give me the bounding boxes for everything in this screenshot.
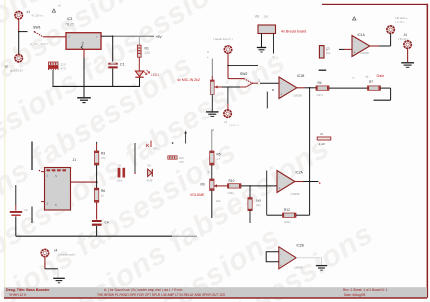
svg-text:F2: F2 <box>256 15 260 19</box>
svg-text:C1: C1 <box>120 63 125 67</box>
svg-text:LM358: LM358 <box>360 51 369 55</box>
svg-text:SW2: SW2 <box>240 72 247 76</box>
svg-text:R10: R10 <box>229 179 235 183</box>
svg-text:x3: x3 <box>224 120 227 124</box>
svg-text:Gain: Gain <box>377 74 385 78</box>
svg-text:LM358: LM358 <box>291 192 300 196</box>
svg-text:x B out L-: x B out L- <box>398 37 409 41</box>
svg-text:+9: +9 <box>58 4 62 8</box>
svg-text:E: E <box>319 181 321 185</box>
svg-text:9-12V in: 9-12V in <box>32 14 44 18</box>
svg-text:x2: x2 <box>5 65 9 69</box>
svg-text:-: - <box>280 253 281 257</box>
svg-text:( aux in ): ( aux in ) <box>229 123 239 127</box>
svg-text:LM358: LM358 <box>293 94 302 98</box>
svg-text:+: + <box>353 51 355 55</box>
svg-text:470: 470 <box>61 66 66 70</box>
svg-text:IC2A: IC2A <box>296 171 304 175</box>
svg-text:E_SW_SPDT: E_SW_SPDT <box>30 42 48 46</box>
svg-text:R12: R12 <box>284 208 290 212</box>
svg-text:10k: 10k <box>153 147 158 151</box>
svg-text:1k5: 1k5 <box>256 199 261 203</box>
svg-text:C4: C4 <box>105 221 109 225</box>
svg-text:gnd 9-12V: gnd 9-12V <box>10 69 23 73</box>
svg-text:LM358: LM358 <box>294 266 303 270</box>
svg-text:4148: 4148 <box>147 178 153 182</box>
svg-text:+: + <box>280 263 282 267</box>
svg-text:( on bb ): ( on bb ) <box>395 20 405 24</box>
svg-text:IC1A: IC1A <box>358 33 366 37</box>
svg-text:R7: R7 <box>369 80 373 84</box>
svg-text:Date: 6/Aug/09: Date: 6/Aug/09 <box>344 293 365 297</box>
svg-text:4x MIC-IN 2k2: 4x MIC-IN 2k2 <box>177 78 200 82</box>
svg-text:470: 470 <box>179 160 184 164</box>
svg-text:4x Bread board: 4x Bread board <box>281 30 306 34</box>
svg-text:R5: R5 <box>217 153 221 157</box>
svg-text:IC1B: IC1B <box>297 74 305 78</box>
svg-text:J4: J4 <box>404 33 408 37</box>
svg-text:78L05: 78L05 <box>65 23 74 27</box>
svg-text:YHHH 12 K: YHHH 12 K <box>9 293 27 297</box>
svg-text:J1: J1 <box>73 158 77 162</box>
svg-text:SW1: SW1 <box>33 25 41 29</box>
svg-text:x1: x1 <box>27 10 31 14</box>
svg-text:C: C <box>207 50 209 54</box>
svg-text:x.: x. <box>353 76 355 80</box>
svg-text:IC3: IC3 <box>67 17 72 21</box>
svg-text:Rev: 1 Sheet: 1 of 1 Board N: Rev: 1 Sheet: 1 of 1 Board N: 1 <box>343 288 388 292</box>
svg-text:x B out L+: x B out L+ <box>395 16 408 20</box>
svg-text:THE BRDW PL RKNO DPE FOR CPT S: THE BRDW PL RKNO DPE FOR CPT SPLR L/W AM… <box>97 293 226 297</box>
svg-text:1<: 1< <box>326 48 330 52</box>
svg-text:Desg. Title: Bass Booster: Desg. Title: Bass Booster <box>6 288 50 292</box>
svg-text:+: + <box>278 187 280 191</box>
svg-text:( chassis gnd ): ( chassis gnd ) <box>58 253 76 257</box>
svg-text:R4: R4 <box>318 81 322 85</box>
svg-text:C6: C6 <box>118 164 122 168</box>
svg-text:x4: x4 <box>54 249 58 253</box>
svg-text:(10k): (10k) <box>228 191 234 195</box>
svg-text:x6: x6 <box>320 132 323 136</box>
svg-text:+: + <box>280 93 282 97</box>
svg-text:100: 100 <box>264 15 269 19</box>
svg-text:(10k): (10k) <box>284 220 290 224</box>
svg-text:IC2B: IC2B <box>297 244 305 248</box>
svg-text:R6: R6 <box>101 189 105 193</box>
svg-text:A: ( for Sound use ) B ( woofe: A: ( for Sound use ) B ( woofer amp chnl… <box>104 288 183 292</box>
svg-text:LED1: LED1 <box>151 73 159 77</box>
svg-text:(1k): (1k) <box>256 203 261 207</box>
svg-text:220: 220 <box>145 51 151 55</box>
svg-text:10k: 10k <box>216 199 221 203</box>
svg-text:C2: C2 <box>24 208 28 212</box>
svg-text:47k: 47k <box>101 156 106 160</box>
svg-text:4.7: 4.7 <box>217 157 221 161</box>
svg-text:D2: D2 <box>148 164 152 168</box>
svg-text:VOLUME: VOLUME <box>190 193 205 197</box>
svg-text:R9: R9 <box>201 183 205 187</box>
svg-text:+5V: +5V <box>156 35 163 39</box>
svg-text:R3: R3 <box>101 152 105 156</box>
svg-text:( audio line in ): ( audio line in ) <box>213 37 233 41</box>
svg-text:(4k7): (4k7) <box>317 93 323 97</box>
svg-text:1 u F: 1 u F <box>319 142 326 146</box>
svg-text:S: S <box>55 174 57 178</box>
svg-text:100n: 100n <box>117 178 123 182</box>
